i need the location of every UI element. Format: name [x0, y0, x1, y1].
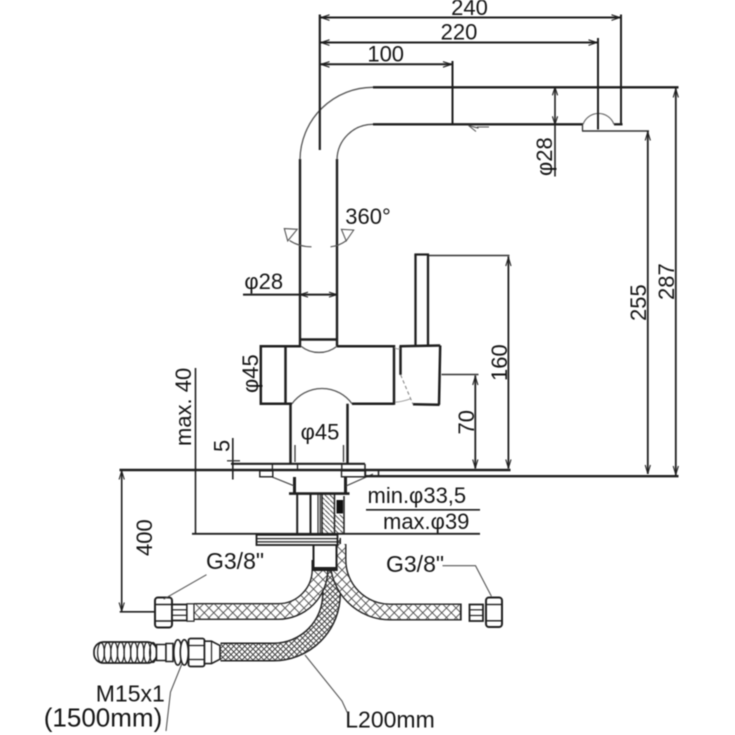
- base plate top line (5mm plate): [231, 463, 365, 465]
- extension line at 220 end: [597, 38, 599, 130]
- aerator dome at spout end: [583, 113, 614, 124]
- svg-text:220: 220: [441, 20, 478, 45]
- svg-text:max. 40: max. 40: [171, 368, 196, 446]
- spout bottom edge: [373, 123, 583, 125]
- svg-text:G3/8": G3/8": [206, 548, 264, 574]
- dimension 160: [429, 256, 511, 469]
- riser pipe right edge: [336, 159, 338, 346]
- step ticks between deck levels: [364, 464, 366, 477]
- base plate edge ticks: [271, 464, 273, 470]
- svg-text:min.φ33,5: min.φ33,5: [368, 483, 467, 508]
- body right end edge: [393, 345, 396, 405]
- dimension 287: [673, 88, 678, 475]
- svg-text:L200mm: L200mm: [345, 707, 434, 733]
- dimension 100: [320, 62, 453, 68]
- svg-text:400: 400: [132, 519, 157, 556]
- body left cap: [260, 345, 263, 405]
- extension line at 240 end / spout tip: [620, 15, 622, 126]
- M15x1 corrugated hose end: [94, 639, 220, 667]
- spout inner bend arc: [337, 124, 373, 159]
- dimension 240: [320, 15, 621, 21]
- svg-text:100: 100: [367, 42, 404, 67]
- svg-text:360°: 360°: [345, 204, 391, 229]
- svg-text:φ28: φ28: [532, 137, 557, 176]
- flange step boxes at deck: [260, 471, 366, 477]
- svg-text:φ45: φ45: [238, 354, 263, 393]
- right supply hose (light braid): [338, 544, 461, 612]
- countertop deck line right (lower): [365, 475, 679, 477]
- dimension 5: [227, 438, 240, 480]
- countertop deck line left: [120, 469, 511, 471]
- right hose end fitting G3/8: [461, 598, 502, 628]
- svg-text:255: 255: [626, 284, 651, 321]
- svg-text:5: 5: [210, 440, 235, 452]
- dimension 400: [119, 470, 155, 612]
- svg-text:max.φ39: max.φ39: [383, 509, 469, 534]
- escutcheon skirt diagonals: [260, 472, 373, 486]
- cold inlet tube below mounting nut: [312, 543, 337, 571]
- svg-text:φ28: φ28: [244, 269, 283, 294]
- dimension 220: [320, 40, 598, 46]
- left hose end fitting G3/8: [155, 598, 194, 628]
- handle lever rod: [414, 255, 429, 347]
- dimension 70: [442, 375, 479, 469]
- escutcheon gasket box below deck: [289, 477, 350, 494]
- body bottom edge with base bump: [261, 402, 292, 405]
- svg-text:240: 240: [451, 0, 488, 20]
- svg-text:287: 287: [654, 263, 679, 300]
- riser pipe left edge: [299, 159, 301, 346]
- spout outer bend arc: [300, 87, 373, 159]
- svg-text:G3/8": G3/8": [386, 551, 444, 577]
- left supply hose (light braid): [194, 560, 320, 612]
- phi28 label on spout (rotated) with leader: [554, 87, 556, 176]
- threaded shank with supply rods between gasket and nut: [297, 495, 344, 535]
- faucet body top edge with riser dip: [261, 345, 301, 348]
- rotation arrowheads and arc: [284, 229, 353, 247]
- base column under body: [291, 404, 348, 464]
- riser joint line above body: [300, 338, 337, 341]
- svg-text:φ45: φ45: [301, 420, 340, 445]
- small arrow mark under spout: [469, 126, 490, 132]
- spout top edge: [373, 86, 679, 88]
- handle base: [395, 346, 441, 405]
- dimension max. 40: [195, 368, 197, 534]
- svg-text:(1500mm): (1500mm): [44, 703, 162, 733]
- svg-text:70: 70: [454, 410, 479, 434]
- mounting nut bar under deck: [257, 535, 338, 545]
- extension line at 100: [452, 61, 454, 125]
- extension line riser axis: [319, 15, 321, 151]
- center outlet hose (dense braid) going to M15 fitting: [221, 538, 332, 652]
- svg-text:160: 160: [487, 344, 512, 381]
- aerator ledge / 255 extension line: [582, 130, 649, 132]
- dimension 255: [645, 131, 650, 474]
